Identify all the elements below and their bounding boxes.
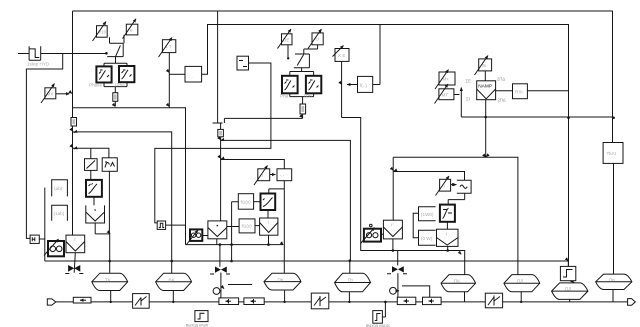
- block sum small3: [300, 104, 306, 114]
- block Mx right: [435, 70, 455, 90]
- wire gain slash to curve: [91, 170, 94, 205]
- wire bus y148: [73, 148, 109, 158]
- pill TK7: [552, 283, 588, 300]
- wire tap y140 to right: [221, 140, 351, 260]
- block MX: [41, 84, 56, 104]
- block AMP: [477, 81, 496, 100]
- wire pulse box output: [166, 224, 186, 226]
- svg-text:(1W0): (1W0): [421, 212, 434, 217]
- block trunk small: [71, 118, 77, 127]
- svg-text:2ΠΔ: 2ΠΔ: [497, 77, 505, 82]
- scope S1: [89, 66, 112, 87]
- wire I2 to wave box: [451, 184, 456, 186]
- block min R: [437, 229, 459, 246]
- block sum small1: [218, 129, 224, 136]
- wire pill4 feed: [349, 261, 351, 274]
- bracket box right1: [419, 207, 436, 221]
- svg-text:ПК: ПК: [278, 278, 284, 283]
- block f(u): [358, 76, 373, 92]
- switch2 body: [288, 45, 318, 68]
- block dash-dot: [277, 169, 292, 181]
- block H small: [30, 235, 39, 243]
- block gamma curve: [440, 205, 455, 222]
- block relay marks: [237, 56, 249, 70]
- block bus R3: [397, 297, 416, 304]
- wire pill1 feed chain: [95, 171, 110, 272]
- svg-text:ПК: ПК: [609, 278, 615, 283]
- wire sum feed from top border: [217, 11, 219, 123]
- block DE2: [278, 29, 293, 49]
- svg-text:TkAI: TkAI: [607, 151, 616, 156]
- block theta right: [361, 224, 382, 243]
- svg-text:I': I': [391, 223, 393, 228]
- wire sum crossbar: [213, 122, 223, 124]
- wire theta-r to P: [381, 233, 383, 235]
- wire J to K: [255, 225, 260, 227]
- wire AMP feedback up: [460, 88, 462, 118]
- wire pill7 arrow: [571, 280, 575, 283]
- block dots transfer: [185, 66, 202, 82]
- wire pill5 bottom: [464, 292, 466, 302]
- block min K: [260, 218, 278, 235]
- svg-text:I: I: [446, 232, 447, 237]
- block fi1x upper: [238, 194, 253, 210]
- block bus R1: [219, 298, 239, 305]
- block exp curve left: [86, 180, 102, 197]
- pill TK8: [596, 274, 632, 289]
- svg-text:TK: TK: [105, 278, 112, 283]
- switch1 body: [107, 35, 124, 57]
- circle node right: [390, 287, 399, 294]
- wire sum column down: [220, 123, 222, 221]
- svg-text:1Ph: 1Ph: [304, 94, 313, 99]
- wire brackets connector: [413, 213, 418, 238]
- wire fu output arrow: [347, 84, 358, 86]
- wire AMP to RXI: [496, 90, 513, 92]
- svg-text:ПЛ: ПЛ: [517, 279, 523, 284]
- block sum small2: [113, 93, 118, 102]
- block lookup curve G: [261, 194, 276, 211]
- port arrow left: [47, 299, 56, 305]
- wire pill6 bottom: [520, 292, 522, 302]
- block valve actuator P: [383, 220, 402, 239]
- wire Bi to AMP: [484, 71, 486, 81]
- svg-text:Pha: Pha: [280, 94, 289, 99]
- svg-text:-.-: -.-: [280, 173, 285, 178]
- wire 1/T output down: [168, 53, 170, 108]
- block pulse mid: [157, 221, 165, 229]
- pill TK2: [156, 273, 192, 290]
- svg-text:RXI: RXI: [515, 89, 523, 94]
- svg-text:1step HYD: 1step HYD: [27, 62, 50, 67]
- pill TK1: [92, 273, 128, 290]
- block I lower: [254, 166, 270, 186]
- wire F feed vertical: [232, 202, 239, 261]
- wire K bottom: [268, 235, 270, 244]
- svg-text:(ab): (ab): [54, 186, 63, 191]
- svg-text:e: e: [130, 28, 133, 33]
- svg-text:I': I': [74, 237, 76, 242]
- wire scope pair1 top bracket: [104, 57, 127, 87]
- block pulse bottom left: [186, 311, 208, 327]
- svg-text:ΣΙ: ΣΙ: [466, 97, 470, 102]
- wire step input line: [18, 53, 106, 55]
- wire gamma to vboxR: [446, 222, 448, 229]
- wire circle2 stub: [228, 284, 252, 286]
- wire outer top border: [73, 11, 613, 143]
- wire H box to vertical: [39, 238, 45, 240]
- wire G to K: [267, 210, 269, 218]
- block MT right: [435, 84, 454, 104]
- svg-text:Tb: Tb: [348, 278, 354, 283]
- wire E to dots box: [270, 174, 276, 176]
- wire vertical x44.8: [44, 188, 46, 261]
- block Bi: [475, 56, 492, 76]
- svg-text:ПЛ: ПЛ: [565, 287, 571, 292]
- svg-text:2ΠΔ: 2ΠΔ: [498, 98, 506, 103]
- wire RXI to right bus: [528, 90, 569, 92]
- pill TK6: [504, 275, 540, 292]
- wire 1/T tap to dots box: [169, 73, 185, 75]
- pill TK4: [335, 273, 371, 292]
- wire pill bottoms: [111, 289, 570, 302]
- wire vboxH bottom to valve: [217, 239, 221, 298]
- block bus R2: [244, 298, 264, 305]
- gray labels AMP pins: [466, 77, 506, 103]
- svg-text:. .: . .: [189, 74, 193, 79]
- block theta left: [44, 239, 64, 256]
- svg-text:MT: MT: [442, 92, 449, 97]
- block step pill7: [560, 266, 575, 280]
- wire second top bus: [202, 25, 569, 267]
- svg-text:X E: X E: [338, 53, 345, 58]
- wire scope chain bus y118: [224, 118, 302, 123]
- wire vboxH to J: [227, 226, 239, 228]
- wire dots box bottom split: [269, 181, 285, 274]
- svg-text:fi1(x): fi1(x): [241, 200, 252, 205]
- bracket box right2: [419, 230, 436, 245]
- block bus arrow left: [73, 297, 91, 303]
- wire pulse chain right loop: [155, 63, 271, 223]
- wire P bottom to wire249: [392, 239, 394, 251]
- bracket box lower left: [52, 205, 68, 221]
- wire y171 to wave box: [393, 172, 464, 181]
- valve mid: [210, 267, 230, 275]
- valve left: [65, 253, 83, 274]
- wire theta-m to vbox: [202, 235, 208, 237]
- svg-text:ПK: ПK: [454, 279, 461, 284]
- node step line tap: [105, 52, 108, 55]
- wire gain slash feed: [90, 148, 92, 158]
- wire pill7 step feed: [567, 261, 569, 266]
- wire MT stub: [454, 94, 460, 96]
- wire MX output: [56, 93, 70, 95]
- block U: [308, 29, 323, 49]
- wire mid group bus y245: [186, 244, 284, 246]
- circle node mid: [213, 288, 221, 295]
- block wave display: [454, 180, 471, 193]
- block RXI: [513, 84, 528, 99]
- block valve actuator left1 open top: [86, 205, 105, 223]
- junction chevrons: [70, 70, 569, 289]
- svg-text:BK: BK: [169, 278, 176, 283]
- svg-text:(0 W): (0 W): [421, 236, 433, 241]
- wire left trunk: [72, 11, 74, 235]
- wire F to G: [254, 201, 261, 203]
- source step symbol: [27, 46, 50, 66]
- block valve actuator H: [208, 221, 227, 239]
- svg-text:выход клап: выход клап: [186, 323, 208, 327]
- wire bracket AB: [402, 286, 430, 297]
- wire bus y132: [73, 132, 172, 273]
- block zigzag right: [485, 293, 502, 308]
- block gain slash: [85, 159, 98, 171]
- block 1/T: [159, 38, 176, 58]
- svg-text:(1ab): (1ab): [54, 211, 65, 216]
- svg-text:NAMP: NAMP: [478, 84, 492, 90]
- wire fu input from top bus: [373, 25, 380, 85]
- wire P vbox top feed: [392, 157, 394, 220]
- block theta mid: [187, 229, 203, 244]
- wire TKAI to pill8: [612, 163, 615, 302]
- pill TK3: [264, 273, 301, 290]
- wire vboxR bottom: [447, 246, 449, 250]
- wire gamma top loop: [448, 193, 465, 204]
- wire C output down: [342, 61, 465, 274]
- wire pulse mid link: [382, 302, 385, 317]
- block I right: [436, 176, 451, 196]
- port arrow right: [628, 299, 636, 306]
- svg-text:fi1(x): fi1(x): [242, 224, 253, 229]
- wire bus y261: [45, 260, 569, 262]
- svg-text:ΣΕ: ΣΕ: [466, 79, 472, 84]
- scope S4: [304, 76, 322, 99]
- svg-text:f(..): f(..): [360, 83, 367, 88]
- block e: [123, 19, 138, 39]
- block zigzag left: [133, 294, 150, 309]
- wire step branch down-left: [26, 54, 62, 239]
- svg-text:1Pha: 1Pha: [114, 83, 125, 88]
- wire pill3 bottom: [284, 290, 286, 302]
- block zigzag mid: [311, 293, 329, 309]
- block XE: [333, 46, 350, 62]
- scope S3: [280, 76, 298, 99]
- wire tap y159 to dots box: [221, 160, 285, 169]
- block TKAI: [603, 143, 623, 164]
- svg-text:выход насос: выход насос: [366, 323, 390, 327]
- wire bottom bus: [56, 301, 628, 303]
- bracket box upper left: [52, 180, 68, 197]
- pill TK5: [441, 275, 476, 292]
- block V101: [93, 22, 108, 42]
- wire AMP bottom down: [485, 100, 487, 158]
- wire switch2 to scopes: [290, 68, 314, 119]
- block fi1x lower: [239, 219, 255, 233]
- valve right: [387, 266, 407, 274]
- svg-text:Phase: Phase: [89, 83, 102, 88]
- block valve actuator left2: [66, 235, 85, 253]
- block pulse bottom mid: [366, 311, 390, 327]
- wire scope pair1 center links: [114, 87, 116, 106]
- wire feedback bus y117: [461, 116, 614, 118]
- wire valve3 feed: [397, 251, 399, 298]
- wire bus y108: [73, 108, 186, 245]
- wire y157 split: [393, 157, 518, 274]
- svg-text:I: I: [268, 220, 269, 225]
- block bus R4: [423, 297, 442, 304]
- block integrator: [102, 158, 117, 172]
- scope S2: [114, 66, 134, 88]
